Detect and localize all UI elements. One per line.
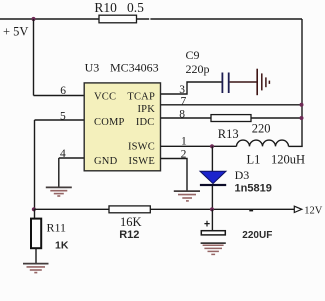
wire pin 7 — [161, 104, 303, 106]
svg-text:+ 5V: + 5V — [3, 24, 28, 38]
wire output rail right — [150, 208, 294, 210]
wire pin 2 — [161, 159, 188, 192]
wire diode anode — [211, 146, 213, 171]
ground (R11) — [23, 264, 49, 273]
ground (pin 4) — [46, 187, 72, 196]
wire top rail left — [0, 18, 99, 20]
wire left vertical to pin 6 — [33, 19, 35, 96]
svg-text:R12: R12 — [119, 229, 139, 241]
capacitor C9 — [221, 73, 223, 94]
wire C9 to ground — [230, 81, 257, 83]
svg-text:1K: 1K — [55, 239, 69, 251]
wire pin 3 stub — [161, 82, 222, 94]
resistor R13 — [211, 115, 251, 122]
wire pin 5 — [35, 119, 85, 121]
svg-text:0.5: 0.5 — [127, 0, 144, 15]
op-amp U3 IC body MC34063 — [84, 83, 160, 171]
inductor L1 — [237, 140, 289, 146]
svg-text:12V: 12V — [304, 205, 323, 216]
resistor R12 — [109, 206, 150, 213]
resistor R10 — [99, 15, 137, 23]
svg-text:6: 6 — [60, 85, 66, 97]
resistor R11 — [31, 219, 41, 249]
node diode-output junction — [210, 207, 214, 211]
svg-text:MC34063: MC34063 — [110, 60, 159, 74]
svg-text:IPK: IPK — [137, 104, 155, 115]
svg-text:2: 2 — [181, 148, 187, 160]
ground (C9, rotated right) — [257, 69, 269, 96]
wire top rail right — [137, 18, 303, 20]
svg-text:1n5819: 1n5819 — [235, 183, 272, 195]
svg-text:120uH: 120uH — [271, 152, 305, 166]
svg-text:IDC: IDC — [136, 117, 155, 128]
svg-text:COMP: COMP — [94, 117, 125, 128]
svg-text:8: 8 — [179, 109, 185, 121]
diode D3 — [200, 171, 226, 183]
wire pin 4 ground drop — [58, 158, 60, 187]
wire right bus — [301, 19, 303, 146]
svg-text:TCAP: TCAP — [127, 92, 155, 103]
svg-text:GND: GND — [94, 156, 118, 167]
svg-text:220UF: 220UF — [242, 230, 272, 241]
svg-text:U3: U3 — [85, 60, 100, 74]
svg-text:220p: 220p — [186, 62, 210, 76]
node pin8-bus junction — [300, 116, 304, 120]
svg-text:D3: D3 — [235, 168, 250, 182]
capacitor 220UF plus sign — [204, 221, 209, 227]
svg-text:ISWE: ISWE — [129, 156, 155, 167]
svg-text:C9: C9 — [186, 48, 200, 62]
12V output arrow — [294, 206, 302, 212]
svg-text:R11: R11 — [47, 221, 67, 235]
ground (220UF) — [203, 245, 224, 254]
wire cap 220UF drop — [211, 209, 213, 231]
node pin7-bus junction — [300, 103, 304, 107]
svg-text:4: 4 — [60, 148, 66, 160]
svg-text:1: 1 — [181, 136, 187, 148]
svg-text:R13: R13 — [218, 127, 239, 141]
ground (pin 2) — [174, 191, 200, 201]
wire pin 4 — [59, 157, 85, 159]
wire output rail left — [34, 208, 109, 210]
wire node to R11 — [34, 209, 36, 219]
svg-text:7: 7 — [181, 95, 187, 107]
svg-text:ISWC: ISWC — [128, 142, 155, 153]
svg-text:3: 3 — [179, 84, 185, 96]
solder bump on output wire — [249, 210, 253, 212]
svg-text:L1: L1 — [247, 152, 261, 166]
wire diode cathode — [211, 186, 213, 209]
svg-text:220: 220 — [252, 122, 271, 136]
capacitor 220UF top plate — [201, 231, 225, 235]
wire pin 8 left — [161, 117, 212, 119]
wire pin 8 right — [251, 117, 302, 119]
svg-text:R10: R10 — [94, 0, 117, 15]
node pin1-diode junction — [210, 144, 214, 148]
wire R11 to ground — [35, 248, 37, 263]
wire pin 1 — [161, 145, 237, 147]
wire pin 5 feedback vertical — [34, 120, 36, 209]
svg-text:VCC: VCC — [94, 92, 116, 103]
wire pin 6 — [34, 95, 85, 97]
capacitor 220UF bottom plate — [201, 242, 226, 244]
svg-text:16K: 16K — [120, 215, 142, 229]
node +5V junction — [31, 17, 35, 21]
node feedback junction — [32, 207, 36, 211]
wire L1 to bus corner — [289, 145, 303, 147]
svg-text:5: 5 — [60, 111, 66, 123]
